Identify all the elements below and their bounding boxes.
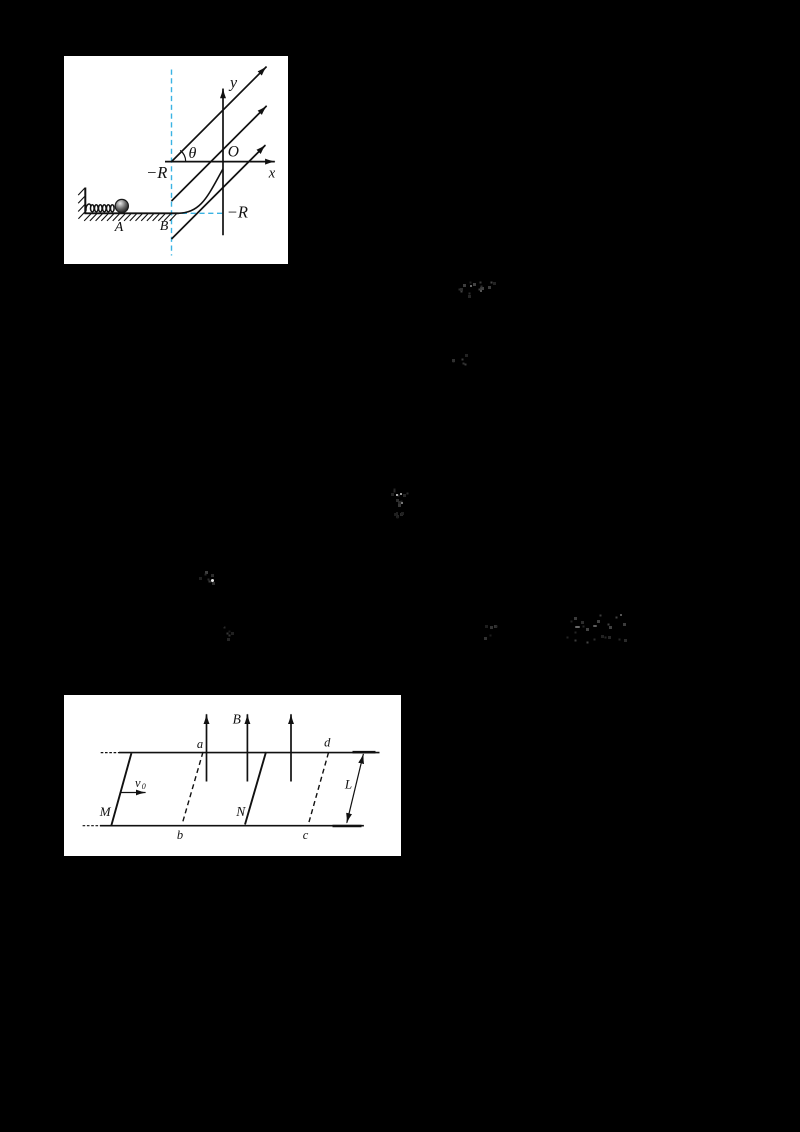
wall [84, 188, 86, 215]
svg-text:N: N [235, 804, 246, 819]
svg-text:L: L [344, 777, 352, 792]
svg-text:c: c [303, 828, 309, 842]
top rail thick right end [353, 751, 376, 754]
spring [86, 204, 114, 212]
residual speck cluster c4 [394, 499, 395, 500]
top rail dashed left end [101, 752, 119, 754]
B field arrow 2 [246, 714, 248, 781]
panel background [64, 695, 401, 856]
svg-text:b: b [177, 828, 183, 842]
wall hatching [78, 188, 84, 219]
y axis [222, 89, 224, 236]
ground line [84, 212, 178, 214]
panel background [64, 56, 288, 264]
svg-text:d: d [324, 736, 331, 750]
velocity arrow 3 (bottom) [172, 145, 266, 239]
top rail [119, 752, 380, 754]
velocity arrow 2 (middle) [172, 106, 267, 201]
velocity arrow 1 (top, through -R on x axis) [172, 67, 267, 162]
residual speck cluster c2 [452, 349, 453, 350]
quarter-circle ramp curve from B up to y axis [178, 169, 223, 213]
ground hatching [84, 214, 176, 221]
svg-text:0: 0 [142, 782, 146, 791]
dashed position a-b [182, 752, 203, 825]
svg-text:A: A [114, 220, 124, 235]
svg-text:x: x [268, 165, 276, 181]
svg-text:θ: θ [188, 145, 196, 162]
dashed position d-c [308, 753, 329, 826]
svg-text:B: B [160, 219, 169, 234]
B field arrow 3 [290, 714, 292, 781]
svg-text:O: O [228, 144, 239, 161]
residual speck cluster c8 [484, 624, 485, 625]
residual speck cluster c7 [223, 626, 224, 627]
svg-text:y: y [228, 75, 238, 92]
residual speck cluster c9 [566, 614, 567, 615]
ball [115, 199, 128, 212]
figure 2: rails and magnetic field diagram panel [64, 695, 401, 856]
v0 arrow [121, 792, 146, 794]
figure 1: spring-ball launch diagram panel [64, 56, 288, 264]
length L double arrow [347, 754, 364, 823]
residual speck cluster c5 [395, 512, 396, 513]
bottom rail [100, 825, 364, 827]
angle theta arc [180, 150, 186, 161]
residual speck cluster c3 [392, 487, 393, 488]
svg-text:−R: −R [146, 163, 167, 182]
x axis [165, 161, 275, 163]
dashed guide vertical line x=-R [171, 70, 173, 256]
bottom rail thick right end [333, 825, 362, 828]
residual speck cluster c1 [457, 280, 458, 281]
bright speck dots [396, 494, 398, 496]
svg-text:v: v [135, 776, 141, 790]
rod M [111, 753, 131, 826]
svg-text:−R: −R [227, 202, 248, 221]
svg-text:a: a [197, 737, 203, 751]
bottom rail dashed left end [83, 825, 100, 827]
svg-text:B: B [233, 711, 241, 726]
svg-text:M: M [99, 804, 112, 819]
rod N [245, 752, 266, 825]
B field arrow 1 [206, 714, 208, 781]
residual speck cluster c6 [198, 569, 199, 570]
dashed guide horizontal line y=-R [173, 212, 222, 214]
